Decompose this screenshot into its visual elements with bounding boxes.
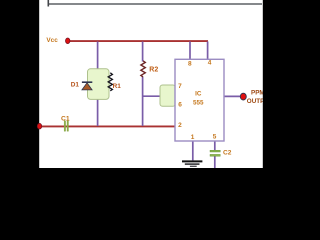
ground	[182, 161, 202, 166]
svg-text:C1: C1	[61, 115, 70, 122]
component body pins 7-6	[160, 85, 175, 106]
component body D1/R1	[88, 69, 110, 100]
left black bar	[0, 0, 39, 168]
capacitor C1	[64, 121, 68, 132]
wire C2 down	[214, 156, 216, 168]
svg-text:5: 5	[213, 134, 217, 141]
svg-text:PPM: PPM	[251, 89, 265, 96]
wire branch D1/R1 vertical	[97, 42, 99, 127]
wire pin 5 to C2	[214, 141, 216, 150]
node bottom-left	[37, 123, 41, 129]
resistor R2	[141, 61, 145, 77]
wire branch R2 vertical upper	[142, 42, 144, 62]
capacitor C2	[210, 150, 220, 156]
top frame line	[48, 3, 262, 5]
wire Vcc top rail	[69, 40, 208, 42]
svg-text:D1: D1	[71, 82, 80, 89]
svg-text:8: 8	[188, 61, 192, 68]
svg-text:2: 2	[178, 122, 182, 129]
svg-text:Vcc: Vcc	[46, 37, 58, 44]
right black bar	[263, 0, 300, 168]
node Vcc	[66, 38, 70, 44]
node output	[240, 93, 246, 100]
svg-text:1: 1	[191, 134, 195, 141]
wire branch R2 vertical lower	[142, 77, 144, 126]
wire pin 8	[189, 42, 191, 60]
op-amp: IC 555 body	[175, 59, 224, 141]
svg-text:4: 4	[208, 60, 212, 67]
svg-text:R2: R2	[149, 66, 158, 73]
wire to pins 7/6 component	[143, 95, 161, 97]
svg-text:555: 555	[193, 100, 204, 107]
svg-text:C2: C2	[223, 150, 232, 157]
wire pin 3 output	[224, 95, 241, 97]
wire pin 1 to ground	[192, 141, 194, 160]
resistor R1	[108, 73, 112, 91]
wire bottom rail (to pin 2)	[39, 125, 176, 127]
svg-text:R1: R1	[113, 83, 122, 90]
svg-text:6: 6	[178, 101, 182, 108]
svg-text:IC: IC	[195, 91, 202, 98]
diode D1	[82, 81, 92, 90]
svg-text:7: 7	[178, 83, 182, 90]
wire pin 4	[207, 42, 209, 60]
